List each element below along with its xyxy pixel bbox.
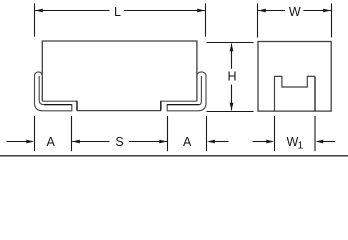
body bottom shelf right	[161, 100, 197, 102]
dimension W arrow right	[323, 9, 331, 13]
bottom extension line at terminal outer right	[206, 116, 208, 151]
dimension W extension line right	[331, 3, 333, 37]
dimension W extension line left	[257, 3, 259, 37]
body bottom step right	[160, 101, 162, 111]
bottom extension line at right lead tip	[167, 116, 169, 151]
svg-text:H: H	[227, 70, 236, 84]
dimension S arrow left	[72, 140, 80, 144]
end view terminal right edge (dark)	[314, 76, 316, 111]
dimension L line right segment	[124, 10, 205, 12]
svg-text:A: A	[47, 135, 56, 149]
body bottom step left	[76, 101, 78, 111]
dimension W1 right outside arrow shaft	[323, 141, 336, 143]
dimension S arrow right	[159, 140, 167, 144]
svg-text:W: W	[289, 5, 301, 19]
dimension W line right segment	[304, 10, 331, 12]
dimension W1 left outside arrow shaft	[253, 141, 268, 143]
dimension A right outside arrow shaft	[214, 141, 229, 143]
dimension L arrow right	[197, 9, 205, 13]
dimension H extension line bottom	[207, 111, 254, 113]
dimension S line right segment	[129, 141, 167, 143]
left terminal tip edge (dark)	[44, 104, 72, 106]
dimension W1 right outside arrow head	[316, 140, 324, 144]
bottom extension line at left lead tip	[71, 116, 73, 151]
dimension H line lower segment	[231, 85, 233, 111]
dimension L extension line left	[34, 3, 36, 36]
dimension W1 extension line left	[274, 116, 276, 151]
right terminal tip edge (dark)	[167, 104, 199, 106]
dimension L line left segment	[35, 10, 109, 12]
dimension W1 left outside arrow head	[266, 140, 274, 144]
svg-text:1: 1	[297, 139, 303, 151]
dimension S line left segment	[72, 141, 109, 143]
bottom frame rule	[0, 155, 348, 157]
end view body rectangle	[258, 42, 331, 112]
svg-text:L: L	[114, 5, 121, 19]
svg-text:S: S	[115, 135, 123, 149]
body bottom center	[77, 110, 161, 112]
end view terminal profile	[275, 76, 316, 111]
dimension L extension line right	[205, 3, 207, 36]
dimension W1 extension line right	[314, 116, 316, 151]
right terminal lead	[167, 72, 206, 111]
dimension A left outside arrow head	[26, 140, 34, 144]
dimension W line left segment	[258, 10, 285, 12]
dimension A left outside arrow shaft	[7, 141, 28, 143]
dimension H extension line top	[207, 42, 254, 44]
dimension H arrow up	[230, 44, 234, 52]
dimension H arrow down	[230, 103, 234, 111]
dimension H line upper segment	[231, 44, 233, 69]
left terminal lead	[35, 72, 72, 111]
body bottom shelf left	[42, 100, 77, 102]
dimension L arrow left	[35, 9, 43, 13]
svg-text:A: A	[183, 135, 192, 149]
body outline (side view: left, top, right edges)	[42, 41, 197, 101]
bottom extension line at terminal outer left	[34, 116, 36, 151]
dimension A right outside arrow head	[207, 140, 215, 144]
dimension W arrow left	[258, 9, 266, 13]
